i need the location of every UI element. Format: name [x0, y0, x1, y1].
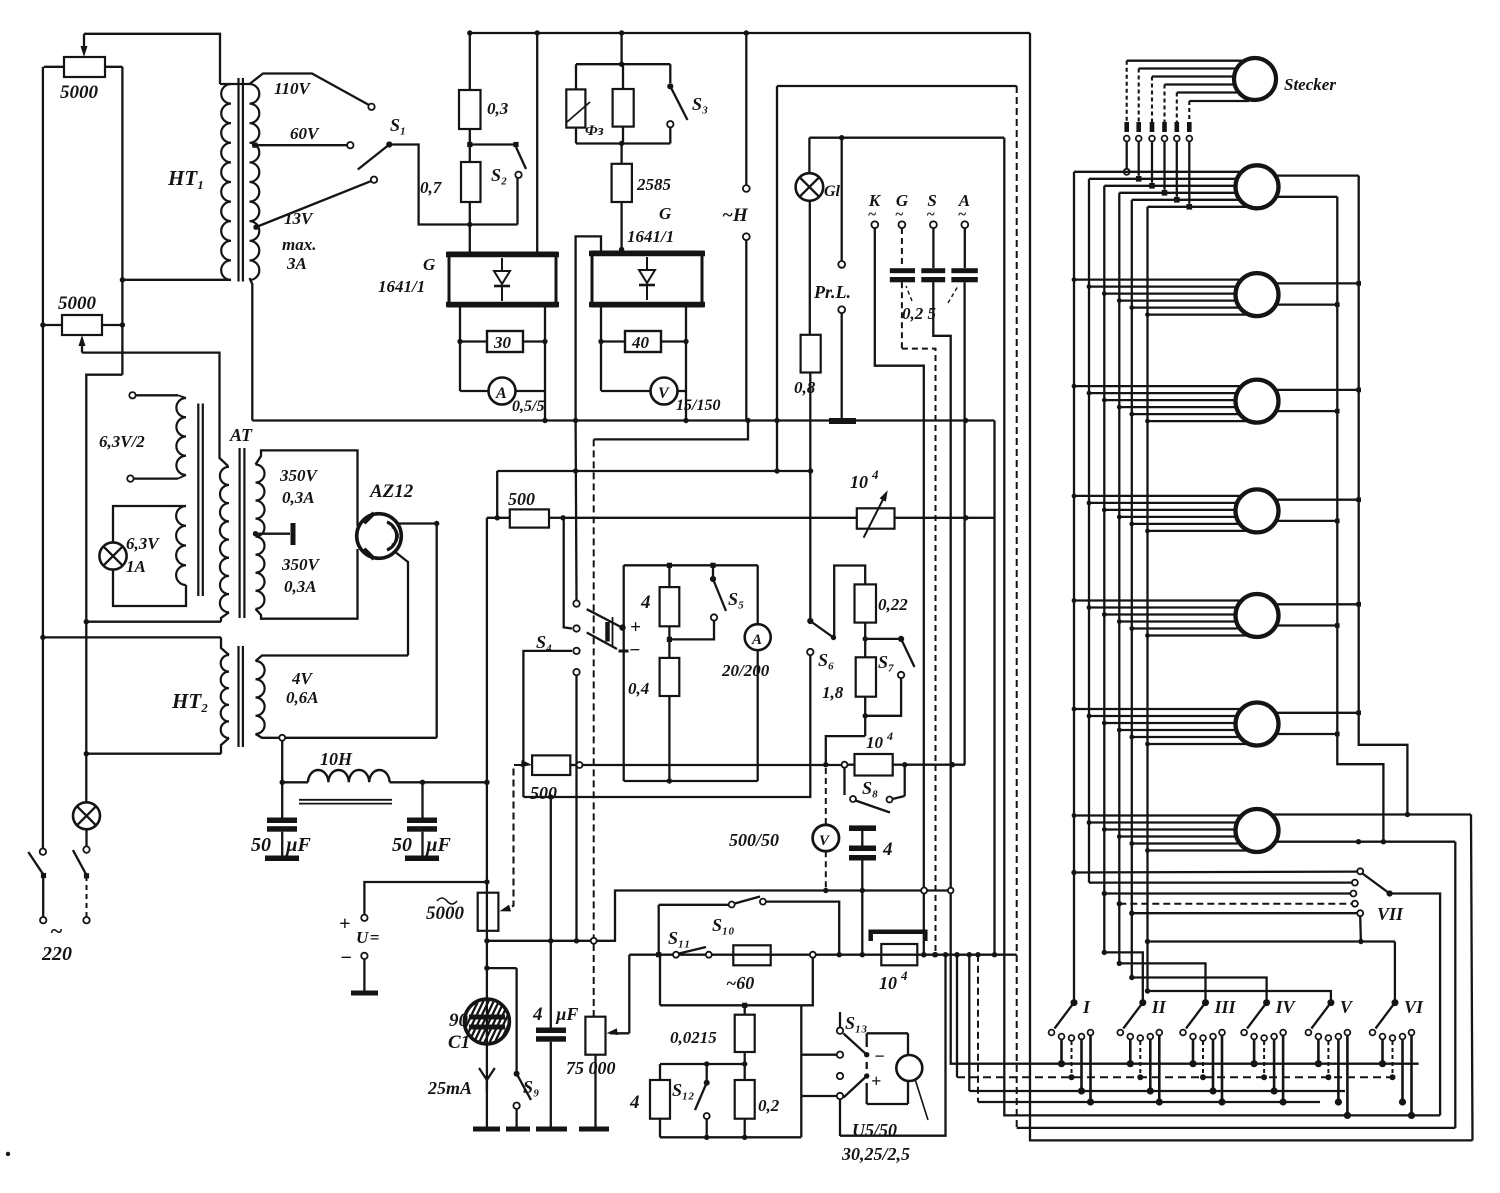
- label 60V: [290, 124, 320, 143]
- label S2: [491, 165, 507, 185]
- svg-text:4: 4: [886, 729, 893, 743]
- transformer HT2 primary winding: [221, 655, 229, 738]
- label 25mA: [427, 1078, 472, 1098]
- transformer HT1 core: [239, 78, 243, 282]
- label 0,25: [902, 286, 958, 323]
- label 500 no.1: [508, 489, 535, 509]
- label 5000 (top left): [60, 82, 99, 103]
- svg-text:40: 40: [631, 333, 650, 352]
- transformer HT2 secondary winding: [256, 661, 265, 734]
- wire: [280, 741, 285, 818]
- svg-text:+: +: [871, 1071, 881, 1091]
- svg-text:A: A: [495, 385, 507, 402]
- choke 10H: [299, 770, 392, 804]
- svg-text:4: 4: [640, 592, 651, 613]
- label 4 (box): [640, 592, 651, 613]
- wire: [975, 952, 1320, 1102]
- wire K: [875, 228, 927, 957]
- potentiometer R 5000 (mid left): [62, 315, 102, 353]
- wire: [523, 651, 572, 797]
- label 4V 0,6A: [286, 669, 319, 707]
- switch S9: [487, 968, 531, 1127]
- wire: [221, 738, 229, 754]
- label S13: [845, 1013, 868, 1033]
- svg-text:30,25/2,5: 30,25/2,5: [841, 1144, 910, 1164]
- selector VI wiring: [1379, 1036, 1415, 1120]
- wire: [457, 306, 547, 391]
- shunt 40: [601, 331, 686, 352]
- wire: [660, 1061, 745, 1080]
- wire: [113, 506, 186, 542]
- selector IV wiring: [1251, 1036, 1287, 1106]
- switch S10: [659, 897, 840, 955]
- wire: [536, 33, 538, 253]
- label 15/150: [676, 397, 720, 414]
- label + -: [629, 617, 641, 661]
- svg-text:0,2 5: 0,2 5: [902, 304, 937, 323]
- wire: [564, 518, 572, 629]
- wire: [523, 655, 810, 797]
- center tap: [253, 523, 293, 545]
- wire: [256, 656, 409, 662]
- svg-text:S₁₀: S₁₀: [712, 915, 735, 935]
- ground: [351, 959, 378, 993]
- plug lead: [1162, 85, 1235, 196]
- resistor ~60: [733, 945, 770, 965]
- capacitor 0,25 G: [890, 268, 915, 282]
- label 5000 (mid left): [58, 293, 97, 314]
- label U=: [356, 928, 379, 947]
- potentiometer 10^4 no.1: [857, 490, 895, 538]
- terminal: [127, 475, 186, 482]
- wire: [1394, 942, 1396, 1003]
- terminal Pr.L.: [838, 138, 845, 419]
- switch S12: [695, 1064, 710, 1137]
- plug Stecker: [1234, 58, 1276, 100]
- meter A 20/200: [745, 624, 771, 650]
- switch S13: [837, 1012, 843, 1136]
- tube 90C1: [457, 998, 532, 1046]
- label 350V 0,3A upper: [279, 466, 319, 507]
- svg-text:III: III: [1214, 997, 1237, 1017]
- label AZ12: [369, 481, 414, 502]
- meter A 0,5/5: [460, 378, 545, 405]
- wire dashed: [1017, 86, 1456, 1128]
- wire S: [933, 228, 1418, 1064]
- switch S4 contacts: [573, 600, 579, 675]
- potentiometer 5000 no.3: [478, 893, 499, 931]
- selector I contacts: [1049, 1030, 1094, 1041]
- svg-text:~: ~: [50, 918, 63, 943]
- svg-text:I: I: [1082, 997, 1091, 1017]
- resistor F3 b: [613, 64, 634, 143]
- selector I wiring: [1058, 1036, 1094, 1106]
- svg-text:HT₂: HT₂: [171, 689, 208, 713]
- wire: [1145, 939, 1395, 944]
- svg-text:1641/1: 1641/1: [378, 277, 425, 296]
- label G 1641/1 no.2: [627, 204, 674, 246]
- transformer Tr 6,3V/2 core: [198, 404, 203, 597]
- capacitor 50uF right: [405, 782, 439, 861]
- label 10H: [320, 749, 353, 769]
- wire: [1390, 894, 1441, 1116]
- switch VII arm: [1363, 874, 1393, 897]
- label 4uF: [532, 1004, 578, 1025]
- switch S13 arms: [844, 1034, 867, 1098]
- wire dashed to 75000: [593, 439, 595, 937]
- svg-text:G: G: [423, 255, 436, 274]
- svg-text:V: V: [1340, 997, 1354, 1017]
- svg-text:S₈: S₈: [862, 778, 878, 798]
- svg-text:0,7: 0,7: [420, 178, 443, 197]
- label 0,0215: [670, 1028, 717, 1047]
- svg-text:S₁₃: S₁₃: [845, 1013, 868, 1033]
- resistor 4 (box): [660, 565, 680, 642]
- lamp mains: [73, 802, 100, 829]
- potentiometer R 5000 (top left): [64, 34, 105, 77]
- arrow 25mA: [479, 1044, 495, 1092]
- selector feed III: [1117, 961, 1206, 1003]
- wire bus: [252, 418, 994, 423]
- switch S5: [669, 565, 726, 639]
- svg-text:10: 10: [866, 733, 884, 752]
- wire: [967, 952, 1345, 1091]
- svg-text:+: +: [339, 913, 350, 935]
- terminal U+: [339, 913, 368, 935]
- wire: [576, 64, 670, 146]
- wire: [256, 450, 358, 526]
- switch S7: [865, 636, 914, 716]
- svg-text:max.: max.: [282, 235, 316, 254]
- wire: [497, 468, 813, 473]
- label max 3A: [282, 235, 316, 273]
- wire: [495, 471, 500, 521]
- wire: [220, 83, 250, 85]
- label 500 no.2: [530, 783, 557, 803]
- wire: [1016, 1101, 1018, 1103]
- label 90 C1: [448, 1010, 470, 1053]
- label 40: [631, 333, 650, 352]
- plug lead: [1149, 77, 1234, 189]
- svg-text:Stecker: Stecker: [1284, 75, 1336, 94]
- label 4 (lower): [629, 1092, 640, 1113]
- tube socket 1: [1236, 165, 1279, 208]
- socket pin wires: [1072, 384, 1250, 424]
- plug lead: [1136, 69, 1236, 182]
- svg-text:0,3A: 0,3A: [282, 488, 315, 507]
- resistor 0,2: [735, 1064, 755, 1137]
- socket pin wires: [1074, 172, 1249, 207]
- plug lead: [1174, 93, 1238, 203]
- bus wire 2: [1088, 179, 1090, 883]
- svg-text:0,8: 0,8: [794, 378, 816, 397]
- wire: [122, 279, 231, 281]
- wire: [840, 952, 948, 1136]
- wire: [823, 736, 865, 890]
- switch S8: [845, 765, 905, 813]
- svg-text:6,3V: 6,3V: [126, 534, 160, 553]
- label 20/200: [721, 661, 770, 680]
- svg-text:A: A: [751, 632, 762, 648]
- svg-text:30: 30: [493, 333, 512, 352]
- shunt 30: [460, 331, 545, 352]
- svg-text:0,4: 0,4: [628, 679, 649, 698]
- potentiometer 10^4 no.2: [842, 754, 966, 776]
- wire: [120, 67, 125, 375]
- potentiometer 500 no.2: [521, 755, 583, 775]
- label 0,8: [794, 378, 816, 397]
- wire G: [902, 228, 938, 957]
- wire: [364, 882, 487, 914]
- tube AZ12: [357, 513, 402, 559]
- selector feed II: [1102, 950, 1143, 1003]
- wire: [82, 353, 228, 466]
- svg-text:20/200: 20/200: [721, 661, 770, 680]
- label S11: [668, 928, 691, 948]
- socket out wire: [1275, 602, 1361, 628]
- wire: [801, 1055, 837, 1096]
- resistor 0,7: [461, 145, 481, 228]
- svg-text:S₆: S₆: [818, 650, 834, 670]
- selector II: [1123, 997, 1167, 1029]
- socket out wire: [1275, 281, 1361, 307]
- wire: [40, 635, 221, 640]
- resistor 4 (lower): [650, 1080, 670, 1137]
- svg-text:4: 4: [532, 1004, 543, 1025]
- selector V contacts: [1306, 1030, 1351, 1041]
- label 10^4 no.1: [850, 467, 879, 492]
- label F3: [567, 102, 604, 139]
- label 0,7: [420, 178, 443, 197]
- label 0,4: [628, 679, 649, 698]
- svg-text:0,3: 0,3: [487, 99, 509, 118]
- wire: [484, 518, 489, 1044]
- label S8: [862, 778, 878, 798]
- wire: [42, 67, 44, 849]
- label 0,2: [758, 1096, 780, 1115]
- selector VI contacts: [1370, 1030, 1415, 1041]
- label HT2: [171, 689, 208, 713]
- label 1A: [126, 557, 146, 576]
- selector feed V: [1145, 988, 1331, 1002]
- svg-text:90: 90: [449, 1010, 469, 1031]
- label S4: [536, 632, 552, 652]
- bus wire 5: [1131, 200, 1133, 978]
- wire arrow to 5000: [500, 765, 522, 911]
- transformer AT core: [240, 448, 245, 618]
- wire B+: [563, 517, 857, 519]
- svg-text:1,8: 1,8: [822, 683, 844, 702]
- label 50uF left: [251, 834, 312, 856]
- wire: [619, 33, 624, 67]
- svg-text:60V: 60V: [290, 124, 320, 143]
- wire: [574, 675, 579, 943]
- label 0,22: [878, 595, 908, 614]
- svg-text:0,5/5: 0,5/5: [512, 398, 544, 415]
- svg-text:5000: 5000: [58, 293, 97, 314]
- wire: [1471, 815, 1473, 1141]
- battery: [587, 617, 629, 651]
- svg-text:75 000: 75 000: [566, 1058, 616, 1078]
- box S5: [624, 563, 758, 784]
- resistor 1,8: [856, 657, 876, 736]
- transformer Tr 6,3V/2 winding: [176, 398, 186, 475]
- meter box U5/50: [864, 1033, 908, 1104]
- selector IV contacts: [1241, 1030, 1286, 1041]
- wire: [660, 1135, 801, 1140]
- svg-text:220: 220: [41, 943, 72, 965]
- svg-text:~H: ~H: [722, 205, 749, 226]
- transformer AT secondary winding: [256, 465, 265, 609]
- label minus plus: [871, 1046, 885, 1091]
- tap 60V: [252, 142, 353, 148]
- selector III contacts: [1180, 1030, 1225, 1041]
- wire dashed: [1117, 901, 1352, 906]
- svg-text:S₂: S₂: [491, 165, 507, 185]
- capacitor 4: [849, 825, 876, 957]
- label 75000: [566, 1058, 616, 1078]
- svg-text:S₇: S₇: [878, 652, 894, 672]
- wire: [86, 621, 221, 623]
- tube socket 5: [1236, 594, 1279, 637]
- svg-text:1A: 1A: [126, 557, 146, 576]
- svg-text:0,6A: 0,6A: [286, 688, 319, 707]
- svg-text:IV: IV: [1275, 997, 1297, 1017]
- svg-text:II: II: [1151, 997, 1167, 1017]
- switch S3: [667, 64, 687, 143]
- svg-text:10H: 10H: [320, 749, 353, 769]
- wire: [256, 549, 358, 619]
- capacitor 50uF left: [265, 818, 299, 862]
- wire: [467, 129, 518, 147]
- socket pin wires: [1072, 277, 1250, 317]
- switch S1: [358, 141, 393, 169]
- wire: [84, 375, 123, 802]
- tap 13V: [253, 177, 377, 230]
- wire: [394, 551, 408, 656]
- bus wire 4: [1118, 193, 1120, 964]
- tube socket 6: [1236, 703, 1279, 746]
- svg-text:6,3V/2: 6,3V/2: [99, 432, 145, 451]
- resistor 0,3: [459, 90, 481, 129]
- socket pin wires: [1072, 598, 1250, 638]
- wire: [486, 1085, 488, 1127]
- wire: [660, 1003, 801, 1008]
- label S9: [523, 1077, 539, 1097]
- svg-text:50: 50: [251, 834, 271, 856]
- svg-text:110V: 110V: [274, 79, 312, 98]
- terminal K: [868, 191, 882, 228]
- selector I: [1055, 997, 1092, 1029]
- wire: [221, 612, 229, 621]
- svg-text:0,0215: 0,0215: [670, 1028, 717, 1047]
- svg-text:V: V: [658, 385, 670, 402]
- wire: [113, 570, 186, 606]
- selector IV: [1247, 997, 1297, 1029]
- wire: [1030, 33, 1473, 1140]
- wire: [801, 958, 813, 1138]
- resistor 0,4 (box): [660, 639, 680, 781]
- switch S6: [807, 618, 832, 655]
- switch mains B: [73, 829, 90, 923]
- label ~H: [722, 205, 749, 226]
- wire: [86, 753, 221, 755]
- potentiometer 75000: [585, 944, 629, 1127]
- wire: [256, 734, 437, 741]
- label 10^4 no.3: [879, 968, 908, 993]
- wire: [573, 236, 601, 423]
- svg-text:Gl: Gl: [824, 183, 841, 200]
- label 0,3: [487, 99, 509, 118]
- wire: [221, 637, 229, 655]
- svg-text:~60: ~60: [726, 973, 754, 993]
- svg-text:S₁₂: S₁₂: [672, 1080, 695, 1100]
- svg-text:0,3A: 0,3A: [284, 577, 317, 596]
- selector II contacts: [1117, 1030, 1162, 1041]
- svg-text:50: 50: [392, 834, 412, 856]
- wire top bus: [467, 30, 1030, 35]
- svg-text:10: 10: [850, 472, 868, 492]
- svg-text:VI: VI: [1404, 997, 1424, 1017]
- wire: [398, 521, 439, 738]
- svg-text:HT₁: HT₁: [167, 166, 204, 190]
- plug lead: [1186, 101, 1249, 210]
- svg-text:−: −: [629, 640, 641, 661]
- wire: [809, 135, 1004, 140]
- capacitor 0,25 S: [921, 268, 945, 282]
- label 6,3V/2: [99, 432, 145, 451]
- wire: [1358, 916, 1363, 944]
- svg-text:4: 4: [882, 839, 893, 860]
- selector V: [1311, 997, 1354, 1029]
- rectifier G 1641/1 no.1: [446, 253, 559, 306]
- label 4 (cap): [882, 839, 893, 860]
- transformer HT1 primary winding: [221, 84, 231, 280]
- selector III wiring: [1189, 1036, 1225, 1106]
- svg-text:AZ12: AZ12: [369, 481, 414, 502]
- label ~60: [726, 973, 754, 993]
- svg-text:350V: 350V: [281, 555, 321, 574]
- wire: [895, 515, 995, 520]
- wire: [282, 780, 489, 785]
- wire: [628, 955, 630, 1034]
- resistor 0,22: [855, 584, 877, 657]
- bus wire 6: [1146, 207, 1148, 991]
- svg-text:C1: C1: [448, 1032, 470, 1053]
- svg-text:1641/1: 1641/1: [627, 227, 674, 246]
- selector V wiring: [1315, 1036, 1351, 1120]
- wire: [1454, 842, 1456, 1128]
- tube socket 4: [1236, 489, 1279, 532]
- label 50uF right: [392, 834, 452, 856]
- svg-text:25mA: 25mA: [427, 1078, 472, 1098]
- resistor 2585: [612, 144, 632, 253]
- svg-text:S₁₁: S₁₁: [668, 928, 691, 948]
- label S10: [712, 915, 735, 935]
- terminal S: [926, 191, 936, 228]
- switch S2: [515, 147, 526, 225]
- svg-text:350V: 350V: [279, 466, 319, 485]
- wire: [1102, 891, 1351, 896]
- svg-text:3A: 3A: [286, 254, 307, 273]
- label 30: [493, 333, 512, 352]
- resistor 500 no.1: [487, 509, 566, 527]
- svg-text:−: −: [874, 1046, 885, 1066]
- label 2585: [636, 175, 672, 194]
- meter U5/50: [896, 1055, 928, 1120]
- label 13V: [284, 209, 314, 228]
- label S3: [692, 94, 708, 114]
